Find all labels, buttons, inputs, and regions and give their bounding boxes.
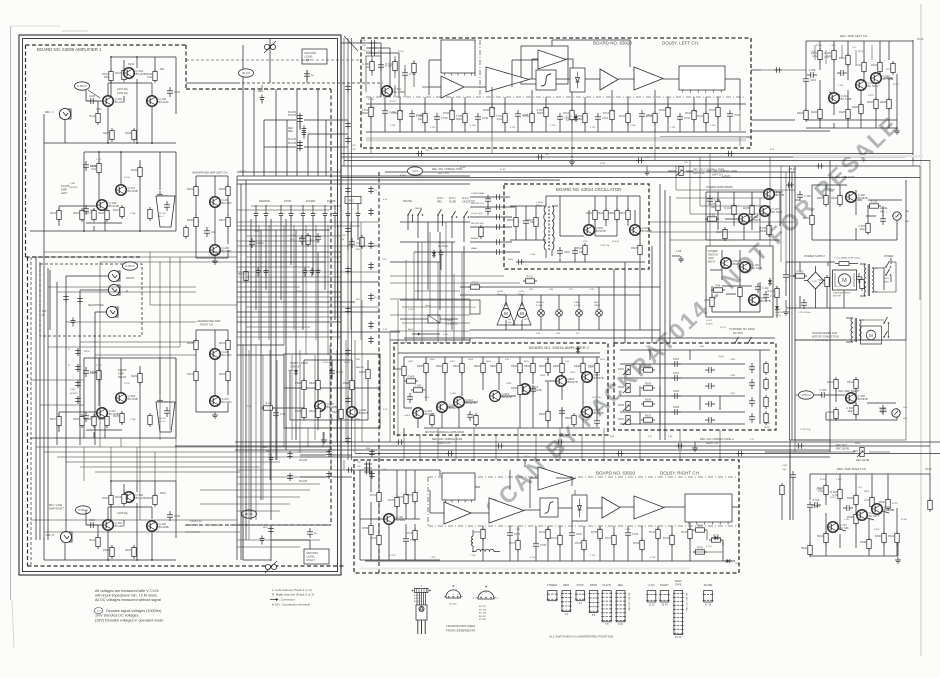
resistor R229: [131, 371, 142, 385]
board 63024 oscillator dashed box: [504, 184, 649, 269]
connector symbols on bus: [396, 439, 804, 456]
svg-text:REC/PB R(3): REC/PB R(3): [471, 223, 484, 225]
svg-text:DOLBY. RIGHT CH.: DOLBY. RIGHT CH.: [660, 471, 700, 476]
lever switch ws1rec: [437, 209, 443, 232]
svg-text:BC413B: BC413B: [128, 397, 138, 401]
svg-text:C705: C705: [540, 544, 547, 547]
svg-text:R308: R308: [645, 399, 652, 402]
svg-text:M: M: [842, 278, 847, 284]
svg-text:METER: METER: [536, 302, 544, 304]
board 63034 amplifier 2 dashed box: [394, 343, 608, 435]
dolby right mid wires: [430, 460, 739, 513]
svg-text:SWITCH: SWITCH: [708, 253, 718, 256]
osc transistor Q601: [584, 225, 606, 236]
svg-text:R606: R606: [395, 368, 402, 371]
svg-text:3 4: 3 4: [578, 602, 582, 605]
lamp2: [556, 310, 563, 317]
rec label: [258, 85, 263, 93]
svg-text:0 T08: 0 T08: [490, 108, 496, 110]
dolby left bottom rail: [366, 117, 746, 132]
svg-text:R722: R722: [685, 112, 692, 115]
resistor R225: [113, 411, 124, 425]
signal oval bottom left: [76, 506, 91, 514]
resistor R101: [102, 69, 113, 83]
transistor Q209: [116, 393, 138, 404]
svg-text:HEATER: HEATER: [775, 311, 784, 314]
svg-text:PLAYB: PLAYB: [288, 114, 296, 117]
switch contacts rewind: [254, 205, 269, 220]
switch bank horizontals mid: [237, 230, 400, 355]
transistor Q201: [210, 197, 232, 208]
mta transistor Q610: [413, 408, 435, 419]
svg-text:2 T08: 2 T08: [470, 555, 476, 557]
svg-text:Green: Green: [425, 304, 432, 307]
svg-text:BC 547B: BC 547B: [752, 266, 763, 270]
rec amp left transistor Q216: [871, 73, 894, 84]
svg-text:REW: REW: [563, 583, 570, 587]
switch bank labels: [259, 197, 361, 204]
label headphone amp right: [197, 319, 221, 327]
svg-text:R 331: R 331: [874, 529, 880, 531]
svg-text:BOARD NO. 63008 AMPLIFIER: BOARD NO. 63008 AMPLIFIER 1: [37, 47, 102, 52]
mic label left: [42, 310, 47, 317]
svg-text:BC547B: BC547B: [594, 376, 604, 380]
svg-text:BC148C: BC148C: [115, 524, 125, 528]
svg-text:12.4V: 12.4V: [460, 167, 466, 169]
svg-text:M: M: [520, 311, 524, 316]
misc right labels: [764, 423, 811, 431]
rec amp left labels: [816, 45, 900, 86]
labels amp1R: [117, 492, 202, 523]
rec label mid left: [262, 446, 271, 456]
power switch box: [706, 246, 773, 317]
ind amp right transistor: [846, 393, 868, 404]
svg-text:+15.2V: +15.2V: [722, 174, 731, 178]
svg-text:12B: 12B: [556, 333, 560, 335]
rec adj caps: [641, 358, 715, 423]
svg-text:C 301: C 301: [254, 231, 260, 233]
svg-text:D 601: D 601: [288, 370, 295, 372]
labels on bus lines: [415, 175, 755, 459]
svg-text:R220: R220: [811, 111, 818, 114]
svg-text:R611: R611: [576, 247, 582, 250]
capacitor C105: [167, 87, 181, 97]
dolby right ic rect 1: [442, 473, 475, 503]
connector bars x372: [366, 448, 375, 479]
svg-text:R701: R701: [370, 494, 377, 497]
svg-text:BC 548: BC 548: [840, 526, 849, 530]
svg-text:R727: R727: [605, 537, 612, 540]
lamp METER ILLUM: [536, 302, 544, 316]
rec adj right caps: [749, 361, 768, 425]
TO-126 package drawing: [412, 586, 431, 635]
svg-text:(11): (11): [711, 206, 715, 209]
dolby right opamp C: [602, 497, 620, 518]
svg-text:R338: R338: [860, 541, 867, 544]
level meter right: [879, 407, 907, 420]
osc transistor Q602: [630, 225, 652, 236]
ind amp right wire drop: [790, 395, 830, 440]
playb amp right label: [118, 368, 127, 379]
svg-text:REC LEVEL: REC LEVEL: [836, 448, 850, 451]
left edge wire mesh: [31, 231, 95, 566]
resistor R104: [115, 492, 126, 506]
svg-text:R104: R104: [128, 63, 135, 66]
pot RECORD LEVEL LEFT: [264, 41, 276, 53]
svg-text:R615: R615: [507, 219, 514, 222]
vertical wire x830: [829, 161, 831, 453]
solenoid labels: [408, 304, 448, 336]
svg-text:L 602 78k: L 602 78k: [600, 245, 610, 247]
svg-text:18µ: 18µ: [418, 118, 423, 121]
cap C113: [304, 70, 314, 80]
svg-text:DOLBY. LEFT CH.: DOLBY. LEFT CH.: [662, 41, 699, 46]
svg-text:R302: R302: [817, 197, 824, 200]
dolby right diode box: [572, 495, 587, 521]
gnd mid bus: [692, 442, 698, 451]
svg-text:(Record): (Record): [497, 293, 506, 296]
svg-text:COMB HEAD: COMB HEAD: [471, 192, 485, 195]
TO-92 package middle: [444, 585, 463, 605]
lower switch arms: [883, 317, 889, 338]
svg-text:RIGHT CH.: RIGHT CH.: [438, 442, 451, 445]
svg-text:22µ: 22µ: [211, 231, 216, 234]
label PLAYB AMP LEFT: [61, 184, 70, 195]
svg-text:R614: R614: [474, 365, 481, 368]
svg-text:C108 33µ: C108 33µ: [117, 512, 128, 515]
svg-text:PAUSE: PAUSE: [415, 207, 423, 210]
switch table PLAYB: [601, 591, 612, 627]
left vertical bus pair: [348, 38, 352, 460]
lamp CASS ILLUM: [574, 301, 582, 316]
svg-text:BC 549B: BC 549B: [394, 90, 405, 94]
svg-text:R705: R705: [397, 496, 404, 499]
svg-text:100µ: 100µ: [859, 228, 865, 231]
resistor R105: [146, 69, 157, 83]
resistor R223: [98, 414, 109, 428]
right area outline box: [795, 180, 906, 340]
svg-text:R211: R211: [219, 342, 225, 345]
ps striped resistor: [818, 275, 829, 289]
svg-text:REC: REC: [348, 199, 354, 203]
svg-text:R617: R617: [527, 219, 534, 222]
transistor Q105: [147, 96, 169, 107]
wire rec amp to bus: [751, 67, 806, 73]
rec amp left top rail: [806, 38, 924, 41]
wires frame to dolby: [186, 43, 366, 83]
svg-text:R307: R307: [618, 418, 625, 421]
switch contacts wfwd: [301, 205, 316, 220]
svg-text:R 230: R 230: [124, 383, 130, 385]
svg-text:0.4Ω: 0.4Ω: [443, 334, 448, 336]
switch table SPEC TAPE: [673, 591, 684, 639]
svg-text:R 304: R 304: [645, 365, 652, 368]
tiny rotated notes right of REC: [628, 593, 689, 611]
svg-text:R612: R612: [453, 365, 460, 368]
dolby left gray band: [366, 137, 746, 142]
rec adj normal tape left label mid: [400, 167, 463, 177]
mic area dashed left edge: [27, 257, 29, 566]
svg-text:(4.7k): (4.7k): [764, 427, 770, 429]
osc transformer: [544, 196, 560, 258]
svg-text:13B: 13B: [905, 211, 909, 213]
svg-text:R340: R340: [875, 535, 882, 538]
svg-text:C 310: C 310: [813, 499, 820, 502]
record level right box: [304, 549, 329, 564]
diagonal wire to dolby box: [344, 36, 358, 51]
svg-text:15B: 15B: [903, 407, 907, 409]
svg-text:R111: R111: [89, 115, 95, 118]
svg-text:(2.3): (2.3): [246, 406, 251, 408]
svg-text:12.8V: 12.8V: [600, 163, 606, 165]
osc caps bottom: [557, 243, 642, 257]
resistor R109: [125, 128, 136, 142]
record level left box: [302, 49, 327, 64]
svg-text:W.FWD: W.FWD: [306, 199, 315, 203]
cap C114R: [307, 528, 317, 538]
signal oval 0.45mV input: [123, 262, 138, 270]
diode bridge: [804, 266, 826, 296]
svg-text:R225: R225: [113, 415, 120, 418]
more connectors left frame: [260, 451, 293, 545]
amp2 diode: [576, 342, 580, 354]
svg-text:AMP RIGHT: AMP RIGHT: [49, 507, 64, 511]
lower transformer: [846, 318, 864, 342]
svg-text:175mV: 175mV: [801, 393, 810, 397]
svg-text:R 320: R 320: [820, 479, 827, 481]
connector arrows reclevel: [345, 84, 351, 144]
svg-text:REC. ADJ. NORMAL TAPE: REC. ADJ. NORMAL TAPE: [700, 438, 731, 441]
dolby right opamp D: [634, 496, 664, 519]
svg-text:2 T05: 2 T05: [590, 127, 596, 129]
bus connector symbols mid band: [416, 150, 824, 171]
mta resistors top: [395, 361, 501, 378]
notes oval symbol: [94, 608, 103, 614]
svg-text:BC549C: BC549C: [70, 187, 78, 189]
svg-text:M: M: [504, 311, 508, 316]
ps ground: [775, 309, 789, 317]
svg-text:C716: C716: [684, 117, 691, 120]
svg-text:CAPSTAN DRIVE: CAPSTAN DRIVE: [833, 292, 851, 295]
switch contacts stop: [279, 205, 294, 220]
dolby left top left connectors: [362, 40, 377, 56]
svg-text:C304: C304: [673, 372, 680, 375]
resistor R215: [219, 369, 230, 383]
svg-text:R207: R207: [219, 219, 226, 222]
svg-text:BC 548B: BC 548B: [883, 77, 894, 81]
svg-text:R215: R215: [219, 373, 226, 376]
svg-text:R205: R205: [187, 219, 194, 222]
input dashed box: [40, 264, 142, 336]
transistor Q203: [210, 245, 232, 256]
scan artifact gray band bottom: [360, 568, 690, 570]
svg-text:R644: R644: [539, 413, 546, 416]
svg-text:BC 858: BC 858: [479, 619, 487, 621]
svg-text:0.6V: 0.6V: [383, 329, 388, 331]
svg-text:C305: C305: [730, 375, 736, 377]
svg-text:: Connector: : Connector: [279, 598, 295, 602]
svg-text:R621: R621: [309, 410, 316, 413]
svg-text:C712: C712: [602, 117, 609, 120]
capacitor C115: [83, 205, 95, 215]
svg-text:RIGHT: RIGHT: [307, 558, 316, 562]
rec amp right transistor Q312: [828, 522, 849, 533]
dolby left opamp A: [441, 76, 464, 98]
svg-text:R 103: R 103: [797, 271, 804, 274]
svg-text:2 T06: 2 T06: [710, 125, 716, 127]
svg-text:C11: C11: [857, 64, 862, 67]
board 63020 dolby left dashed box: [361, 38, 751, 148]
resistor R107: [103, 128, 114, 142]
svg-text:BOARD NO. 63020: BOARD NO. 63020: [596, 471, 636, 476]
start stop transistors: [315, 401, 369, 418]
svg-text:IND. AMP. LEFT: IND. AMP. LEFT: [835, 175, 855, 179]
svg-text:R 151: R 151: [527, 276, 534, 279]
lower switch contacts left: [238, 263, 268, 283]
svg-text:REC/PB L(1): REC/PB L(1): [471, 203, 484, 205]
svg-text:1 T01: 1 T01: [370, 107, 376, 109]
arrow to base amp1L: [88, 90, 100, 98]
svg-text:11 12: 11 12: [648, 603, 655, 606]
svg-text:TO BOARD NO. 63020: TO BOARD NO. 63020: [729, 328, 755, 331]
svg-text:5-7µ: 5-7µ: [819, 282, 825, 285]
resistor R205: [187, 215, 198, 229]
svg-text:R709: R709: [362, 527, 369, 530]
svg-text:BC148C: BC148C: [222, 353, 232, 357]
svg-text:BC549C: BC549C: [70, 393, 78, 395]
svg-text:LEFT: LEFT: [61, 191, 68, 195]
mta labels: [404, 393, 457, 417]
resistor R106: [146, 493, 157, 507]
mta small parts: [404, 376, 478, 428]
dolby left top wires: [366, 40, 740, 110]
rec amp right top rail: [810, 473, 930, 475]
svg-text:C608: C608: [506, 383, 512, 385]
svg-text:12.4V: 12.4V: [240, 171, 246, 173]
svg-text:BC547B: BC547B: [466, 401, 476, 405]
svg-text:BC413B: BC413B: [136, 72, 146, 76]
svg-text:R 103: R 103: [724, 207, 731, 210]
lever switch pause: [407, 209, 413, 230]
svg-text:1.1B: 1.1B: [676, 250, 681, 253]
svg-text:R703: R703: [388, 499, 395, 502]
svg-text:R603: R603: [597, 212, 604, 215]
power amp transistor Q105: [764, 189, 785, 200]
svg-text:R 304: R 304: [296, 291, 302, 293]
mid verticals switch to bus: [346, 222, 462, 453]
svg-text:1 T06: 1 T06: [692, 111, 698, 113]
capacitor C106: [167, 511, 181, 521]
label SPEC TAPE table: [675, 579, 682, 586]
pb osc rel R trapezoid: [156, 402, 175, 432]
switch table REW: [561, 591, 572, 616]
mic area dashed bottom: [28, 565, 346, 567]
input wires: [50, 270, 108, 330]
svg-text:BC547B: BC547B: [594, 411, 604, 415]
pause lever switches: [403, 197, 476, 203]
svg-text:C605: C605: [424, 397, 430, 399]
svg-text:R706: R706: [443, 112, 450, 115]
capacitor C103: [87, 95, 97, 104]
svg-text:LEFT CH.: LEFT CH.: [693, 171, 705, 175]
svg-text:C718: C718: [734, 114, 741, 117]
gnd hp left: [212, 258, 218, 264]
svg-text:MOTOR TERMINAL AMPLIFIER: MOTOR TERMINAL AMPLIFIER: [425, 430, 464, 434]
switch contact rec1: [260, 95, 265, 104]
ind amp left parts: [797, 191, 886, 235]
left frame inner verticals: [84, 252, 180, 520]
connector column mid: [368, 186, 377, 344]
playb amp right wires: [30, 358, 176, 438]
dolby right bottom parts: [474, 525, 723, 555]
dolby left mid wires: [366, 87, 746, 113]
governor labels: [508, 319, 528, 324]
svg-text:R729: R729: [633, 542, 640, 545]
switch table STOP: [575, 591, 585, 606]
svg-text:BC17B: BC17B: [776, 193, 785, 197]
svg-text:R116: R116: [160, 492, 166, 495]
transistor Q101R: [124, 492, 146, 503]
transistor Q103: [103, 96, 125, 107]
svg-text:REL. L: REL. L: [158, 216, 165, 218]
svg-text:BC148C: BC148C: [222, 400, 232, 404]
ind amp left resistor out: [867, 201, 881, 209]
svg-text:BC 547: BC 547: [479, 606, 487, 608]
capacitor C104: [87, 519, 97, 528]
svg-text:2 T01: 2 T01: [543, 108, 549, 110]
resistor R103: [115, 68, 126, 82]
svg-text:R108: R108: [103, 549, 110, 552]
svg-text:C314: C314: [782, 465, 788, 467]
svg-text:PLAYB: PLAYB: [288, 142, 296, 145]
start stop wires: [262, 360, 380, 420]
dolby left ic rect 2: [679, 66, 725, 93]
power switch parts: [704, 278, 777, 309]
playb amp right extra: [70, 365, 170, 427]
svg-text:POWER: POWER: [884, 255, 894, 258]
svg-text:50Hz: 50Hz: [884, 281, 889, 283]
svg-text:R218: R218: [797, 112, 804, 115]
svg-text:R107: R107: [103, 132, 110, 135]
power transformer: [860, 264, 878, 296]
svg-text:R16: R16: [704, 299, 709, 302]
svg-text:1 T03: 1 T03: [550, 125, 556, 127]
svg-text:ILLUM: ILLUM: [574, 305, 581, 307]
signal oval 20mV left: [239, 69, 254, 77]
svg-text:R301: R301: [299, 237, 306, 240]
svg-text:C 606: C 606: [415, 385, 422, 388]
svg-text:BC148B: BC148B: [159, 525, 169, 529]
svg-text:INPUT: INPUT: [126, 276, 135, 280]
svg-text:C 302: C 302: [290, 235, 296, 237]
svg-text:MIC / LINE: MIC / LINE: [49, 503, 62, 507]
svg-text:0.47µ: 0.47µ: [524, 456, 530, 458]
svg-text:BC 400: BC 400: [414, 601, 422, 603]
signal oval 175mV: [799, 391, 814, 399]
osc bottom wires: [520, 257, 645, 262]
power switch labels: [708, 250, 718, 263]
svg-text:1mV Denotes DC voltages: 1mV Denotes DC voltages: [95, 614, 139, 618]
svg-text:R209: R209: [187, 342, 194, 345]
dolby right top connectors: [357, 461, 372, 475]
rec amp left transistor Q214: [856, 80, 879, 91]
ind amp right wires: [814, 381, 897, 420]
svg-text:BOARD NO. 63024 OSCILLATO: BOARD NO. 63024 OSCILLATOR: [556, 187, 621, 192]
dolby left opamp E: [634, 67, 663, 90]
svg-text:R223: R223: [98, 418, 105, 421]
gnd below dolby left: [569, 156, 575, 165]
svg-text:500Ω: 500Ω: [456, 118, 462, 121]
